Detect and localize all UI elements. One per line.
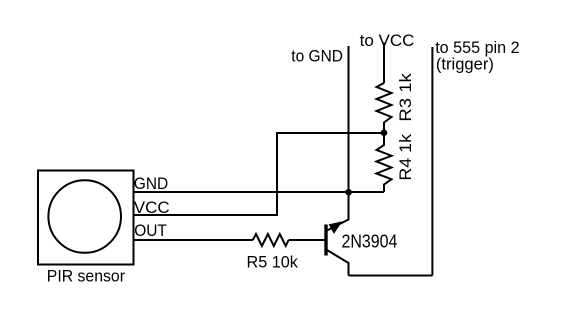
svg-text:2N3904: 2N3904 xyxy=(342,230,398,252)
junction node GND/emitter xyxy=(345,189,352,196)
wire to GND vertical xyxy=(348,46,350,192)
svg-text:to VCC: to VCC xyxy=(360,31,415,50)
svg-text:(trigger): (trigger) xyxy=(436,54,494,73)
Q1 emitter xyxy=(327,192,349,231)
junction node R3/R4/VCC xyxy=(381,129,388,136)
svg-text:R3 1k: R3 1k xyxy=(396,73,415,121)
wire GND (PIR GND pin to ground node and R4 bottom) xyxy=(133,191,384,193)
svg-text:OUT: OUT xyxy=(134,221,167,240)
wire VCC (PIR VCC pin up to R3/R4 midpoint node) xyxy=(133,133,384,215)
wire to VCC lead xyxy=(383,43,385,84)
svg-text:R5 10k: R5 10k xyxy=(247,252,299,271)
svg-text:GND: GND xyxy=(134,175,168,194)
wire OUT (PIR OUT pin to R5) xyxy=(133,239,253,241)
resistor R4 xyxy=(377,133,392,193)
resistor R5 xyxy=(253,234,289,246)
wire to 555 pin 2 vertical xyxy=(431,47,433,276)
transistor Q1 2N3904 xyxy=(326,192,349,276)
Q1 base bar xyxy=(324,225,327,256)
svg-text:VCC: VCC xyxy=(134,198,170,217)
wire R5 to Q1 base xyxy=(289,239,326,241)
svg-text:to GND: to GND xyxy=(291,47,343,66)
PIR lens circle xyxy=(48,180,121,253)
wire Q1 collector to 555 line xyxy=(349,275,433,277)
resistor R3 xyxy=(377,83,392,133)
PIR sensor box xyxy=(38,171,134,265)
Q1 collector xyxy=(327,250,349,276)
svg-text:R4 1k: R4 1k xyxy=(395,134,415,181)
svg-text:PIR sensor: PIR sensor xyxy=(47,267,126,286)
Q1 emitter arrow xyxy=(329,221,343,234)
